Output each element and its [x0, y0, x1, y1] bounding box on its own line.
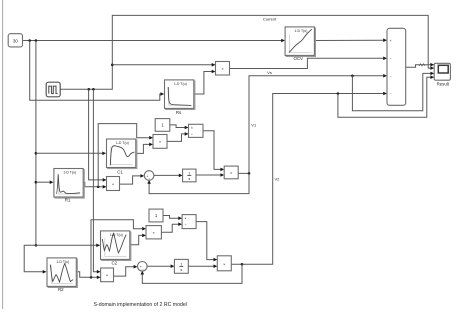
svg-text:30: 30	[13, 38, 18, 43]
svg-text:OCV: OCV	[293, 56, 303, 61]
arrow into C2	[96, 244, 100, 248]
wire: constant 1b to divide2 input1	[163, 216, 179, 219]
wire: SOC trunk vertical	[35, 41, 37, 246]
arrow into product R1*C1 in1	[149, 136, 153, 140]
svg-text:Vs: Vs	[267, 70, 272, 75]
arrow into divide1 in2	[185, 132, 189, 136]
wire: Rs output to Vs product input2	[194, 72, 212, 95]
wire: product V2 output, V2 riser to Add input4	[231, 94, 383, 265]
product block R1*C1	[153, 135, 167, 149]
arrow into scope port1	[430, 63, 434, 67]
constant block 30	[8, 34, 22, 47]
arrow into sum1 bottom	[147, 180, 151, 184]
junction R1 branch up	[97, 186, 100, 189]
svg-text:Result: Result	[437, 81, 450, 86]
svg-text:s: s	[188, 177, 190, 181]
arrow into OCV	[281, 39, 285, 43]
wire: integrator1 output to product V1 input2	[196, 174, 221, 176]
arrow into product R2*C2 in2	[142, 234, 146, 238]
integrator block 2	[174, 259, 188, 273]
svg-text:+: +	[390, 39, 392, 43]
junction V1 to scope branch	[351, 75, 354, 78]
junction on 30-wire for Rs branch	[28, 39, 31, 42]
junction current to Vs product	[111, 64, 114, 67]
svg-text:S-domain implementation of 2 R: S-domain implementation of 2 RC model	[94, 302, 187, 308]
wire: SOC branch down to Rs input	[30, 41, 161, 101]
wire: product I*R2 output to sum2	[114, 267, 134, 276]
wire: R1 up-loop to product R1*C1 input1	[98, 124, 149, 187]
wire: V1 feedback to sum1 bottom	[149, 173, 249, 193]
svg-text:R2: R2	[58, 287, 64, 292]
wire: sum2 output to integrator2	[147, 265, 171, 267]
sum block 1	[144, 171, 154, 181]
junction V1 output	[248, 172, 251, 175]
wire: OCV output to Add input1	[314, 39, 383, 41]
pulse generator	[46, 82, 60, 97]
wire: R2 up-loop to product R2*C2 input1	[91, 220, 143, 277]
constant block 1 (branch1)	[155, 119, 170, 132]
product block I*R1	[107, 177, 120, 191]
wire: Vs product output to Add input2	[230, 58, 384, 68]
junction V2 output feedback	[241, 263, 244, 266]
arrow into product V2 in2	[214, 264, 218, 268]
svg-text:÷: ÷	[185, 223, 187, 227]
arrow into C1	[102, 152, 106, 156]
arrow into sum2 left	[134, 265, 138, 269]
svg-text:÷: ÷	[191, 133, 193, 137]
svg-text:Rs: Rs	[176, 110, 182, 115]
svg-text:Current: Current	[263, 16, 277, 21]
arrow into Rs	[160, 92, 164, 96]
svg-text:C2: C2	[111, 261, 117, 266]
svg-text:s: s	[180, 268, 182, 272]
product block Vs (I x Rs)	[216, 62, 230, 76]
divide block 1/(R1C1)	[189, 124, 204, 137]
arrow into product V1 in1	[220, 168, 224, 172]
lookup table R1	[54, 169, 84, 199]
arrow into scope port4	[430, 75, 434, 79]
svg-text:−: −	[390, 92, 392, 96]
wire: Add output to scope port1	[406, 65, 431, 68]
wire: divide2 output down to product V2 input1	[196, 222, 214, 260]
arrow into Add in2	[383, 57, 387, 61]
arrow into Vs product in1	[212, 63, 216, 67]
svg-text:V2: V2	[275, 176, 281, 181]
arrow into divide2 in1	[178, 216, 182, 220]
wire: SOC to C2 input	[36, 244, 97, 246]
lookup table OCV	[285, 27, 315, 57]
junction SOC to C2/R2	[35, 244, 38, 247]
arrow into R1	[50, 180, 54, 184]
wire: current down to product I*R1	[89, 89, 103, 180]
junction current to branch2	[92, 88, 95, 91]
scope Result	[434, 63, 450, 80]
constant block 1 (branch2)	[149, 209, 163, 222]
svg-text:C1: C1	[117, 170, 123, 175]
arrow into Add in3	[383, 74, 387, 78]
wire: product I*R1 output to sum1	[120, 176, 141, 184]
wire: current to Vs product input1	[112, 64, 212, 66]
arrow into product V1 in2	[220, 173, 224, 177]
arrow into R2	[43, 270, 47, 274]
wire: V1 branch down to scope port3	[352, 73, 430, 110]
wire: product R2*C2 output to divide2 input2	[161, 224, 178, 232]
arrow into scope port2	[430, 66, 434, 70]
svg-text:−: −	[390, 57, 392, 61]
wire: product R1*C1 output to divide1 input2	[167, 134, 185, 142]
wire: V2 feedback to sum2 bottom	[142, 264, 242, 283]
product block R2*C2	[146, 226, 161, 239]
wire: constant 1a to divide1 input1	[170, 125, 185, 128]
lookup table R2	[47, 258, 77, 288]
canvas left border	[2, 0, 4, 309]
divide block 1/(R2C2)	[182, 215, 196, 229]
product block I*R2	[101, 268, 114, 282]
arrow into Vs product in2	[212, 70, 216, 74]
wire: R2 output to product I*R2 input2	[77, 272, 98, 278]
lookup table C1	[107, 139, 137, 169]
wire: SOC to R2 input (around left)	[24, 245, 43, 271]
wire: SOC to C1 input	[36, 152, 103, 154]
wire: C2 output to product R2*C2 input2	[130, 235, 143, 244]
wire: C1 output to product R1*C1 input2	[136, 144, 150, 153]
junction SOC to C1	[35, 152, 38, 155]
junction SOC to R1	[35, 181, 38, 184]
integrator block 1	[183, 169, 196, 182]
svg-text:−: −	[141, 268, 143, 272]
svg-text:×: ×	[185, 217, 187, 221]
wire: integrator2 output to product V2 input2	[188, 265, 214, 267]
arrow into sum1 left	[140, 174, 144, 178]
arrow into product R2*C2 in1	[142, 227, 146, 231]
arrow into product R1*C1 in2	[149, 143, 153, 147]
arrow into sum2 bottom	[141, 271, 145, 275]
lookup table Rs	[165, 80, 195, 110]
wire: divide1 output down to product V1 input1	[203, 131, 221, 170]
signal logging badge on scope wire	[419, 64, 425, 66]
arrow into product V2 in1	[214, 258, 218, 262]
arrow into Add in1	[383, 38, 387, 42]
product block V2	[217, 256, 231, 271]
arrow into product I*R2 in2	[97, 276, 101, 280]
wire: pulse output to current riser	[60, 15, 431, 89]
product block V1	[224, 166, 238, 179]
junction V2 to scope branch	[337, 92, 340, 95]
wire: product V1 output, V1 riser to Add input3	[238, 76, 383, 174]
arrow into product I*R1 in2	[103, 185, 107, 189]
arrow into scope port3	[430, 72, 434, 76]
Add block (Vt summation)	[387, 28, 406, 105]
arrow into product I*R2 in1	[97, 270, 101, 274]
arrow into divide2 in2	[178, 222, 182, 226]
arrow into divide1 in1	[185, 126, 189, 130]
sum block 2	[138, 262, 148, 272]
wire: current down to product I*R2	[93, 89, 97, 271]
wire: sum1 output to integrator1	[154, 174, 179, 176]
svg-text:1: 1	[180, 263, 182, 267]
arrow into product I*R1 in1	[103, 178, 107, 182]
junction current to branch1	[88, 88, 91, 91]
svg-text:V1: V1	[251, 123, 257, 128]
wire: constant 30 to OCV lookup	[23, 40, 282, 42]
svg-text:1: 1	[188, 172, 190, 176]
arrow into integrator2	[171, 264, 175, 268]
wire: V2 branch down to scope port4	[338, 77, 431, 117]
arrow into integrator1	[179, 174, 183, 178]
junction R2 branch up	[90, 276, 93, 279]
svg-text:×: ×	[191, 126, 193, 130]
svg-text:R1: R1	[65, 197, 71, 202]
junction on 30-wire for SOC trunk	[35, 39, 38, 42]
wire: SOC to R1 input	[36, 181, 50, 183]
arrow into Add in4	[383, 92, 387, 96]
svg-text:−: −	[390, 74, 392, 78]
lookup table C2	[101, 231, 131, 261]
svg-text:−: −	[148, 177, 150, 181]
wire: R1 output to product I*R1 input2	[83, 182, 103, 186]
